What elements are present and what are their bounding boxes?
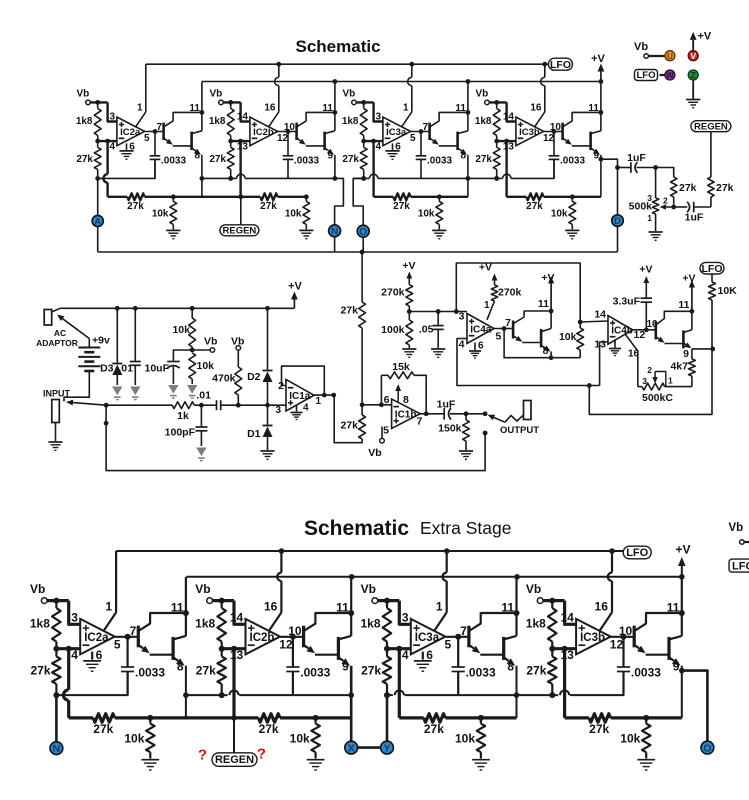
svg-text:IC3a: IC3a (386, 127, 407, 138)
svg-text:IC1a: IC1a (289, 391, 311, 402)
svg-text:7: 7 (505, 317, 511, 329)
op-amp IC2b bot stage 2 (IC2b) (246, 619, 281, 655)
svg-text:IC3a: IC3a (415, 632, 440, 644)
resistor 15k feedback (380, 375, 382, 405)
wire output bot stage 2 (IC2b) (280, 636, 304, 638)
op-amp IC1a (286, 380, 314, 412)
svg-text:5: 5 (445, 638, 452, 652)
svg-text:2: 2 (663, 196, 668, 206)
junction pin4 top stage 1 (IC2a) (95, 139, 100, 144)
transistor Q6 bot stage 3 (IC3a) (502, 637, 505, 660)
power +V arrow (Q12) (691, 288, 693, 312)
ground 10k bot stage 4 (IC3b) (637, 759, 655, 761)
svg-text:.0033: .0033 (294, 155, 319, 166)
junction Vb divider top stage 2 (IC2b) (228, 100, 233, 105)
resistor 10k bot stage 2 (IC2b) (311, 724, 320, 753)
capacitor .0033 bot stage 4 (IC3b) (622, 637, 624, 667)
wire output bot stage 3 (IC3a) (445, 636, 469, 638)
wire +V rail (bottom) (186, 576, 681, 578)
junction feedback vert bot stage 2 (IC2b) (231, 646, 237, 652)
svg-text:10k: 10k (559, 331, 577, 343)
resistor 27k bias top stage 1 (IC2a) (94, 147, 101, 169)
svg-text:3: 3 (459, 311, 465, 323)
svg-text:AC: AC (54, 328, 66, 338)
svg-text:27k: 27k (475, 154, 492, 165)
svg-text:11: 11 (455, 103, 466, 114)
wire collector to +V rail bot stage 3 (IC3a) (515, 577, 517, 636)
connector INPUT jack (52, 400, 60, 423)
wire pin3 corner top stage 3 (IC3a) (374, 102, 383, 121)
ground 10k bot stage 1 (IC2a) (142, 759, 160, 761)
resistor 10k bot stage 4 (IC3b) (642, 724, 651, 753)
wire pin 16 to LFO rail bot stage 4 (IC3b) (600, 612, 612, 630)
junction Vb divider bot stage 2 (IC2b) (219, 598, 225, 604)
svg-text:A: A (94, 216, 101, 227)
resistor 1k8 bot stage 4 (IC3b) (548, 608, 557, 642)
svg-text:3: 3 (375, 111, 381, 122)
capacitor 1uF output (443, 408, 445, 420)
svg-text:12: 12 (279, 638, 293, 652)
junction +V rail (333, 79, 338, 84)
junction bypass tap (104, 421, 109, 426)
svg-text:4: 4 (71, 648, 78, 662)
junction REGEN tap (top) (238, 194, 243, 199)
terminal Vb bot stage 1 (IC2a) (41, 598, 47, 604)
capacitor .0033 bot stage 2 (IC2b) (292, 637, 294, 667)
wire feedback vertical bot stage 1 (IC2a) (67, 649, 70, 690)
svg-text:Vb: Vb (210, 88, 223, 99)
junction lfo bottom tap (587, 383, 592, 388)
wire pin3 corner top stage 1 (IC2a) (108, 102, 117, 121)
junction pin13 bot stage 4 (IC3b) (549, 646, 555, 652)
junction collector bot stage 3 (IC3a) (514, 610, 520, 616)
wire output bot stage 1 (IC2a) (115, 636, 139, 638)
wire collector to +V rail top stage 2 (IC2b) (334, 82, 336, 131)
ground IC1a (296, 405, 298, 412)
connector AC adaptor (44, 310, 52, 326)
wire pin13 line bot stage 2 (IC2b) (222, 647, 246, 650)
junction IC4b output (644, 327, 649, 332)
svg-text:11: 11 (538, 298, 549, 310)
svg-text:27k: 27k (716, 182, 734, 194)
svg-text:5: 5 (144, 133, 150, 144)
ground 10k top stage 1 (IC2a) (166, 229, 180, 231)
svg-text:?: ? (198, 747, 207, 764)
wire output bot stage 4 (IC3b) (611, 636, 635, 638)
svg-text:7: 7 (460, 624, 467, 638)
svg-text:REGEN: REGEN (694, 121, 728, 132)
junction bias bottom bot stage 4 (IC3b) (549, 692, 555, 698)
ground 100k (402, 348, 416, 350)
svg-text:16: 16 (530, 102, 542, 113)
svg-text:O: O (359, 227, 367, 238)
svg-text:100k: 100k (381, 324, 405, 336)
svg-text:IC2b: IC2b (250, 632, 275, 644)
wire pin13 line bot stage 4 (IC3b) (552, 647, 576, 650)
svg-text:D: D (614, 216, 621, 227)
op-amp IC4a (467, 314, 494, 344)
junction REGEN tap (bottom) (231, 715, 237, 721)
wire feedback vertical top stage 1 (IC2a) (106, 141, 108, 174)
wire supply rail (60, 307, 294, 309)
svg-text:15k: 15k (392, 361, 410, 373)
wire phase bus segment A (top) (98, 159, 155, 178)
wire phase bus segment D (top) (468, 177, 503, 179)
svg-text:27k: 27k (93, 722, 113, 736)
junction feedback vert bot stage 1 (IC2a) (66, 646, 72, 652)
junction wiper node (671, 205, 676, 210)
svg-text:D1: D1 (247, 428, 261, 440)
wire feedback vertical bot stage 3 (IC3a) (398, 649, 401, 718)
junction supply rail (190, 306, 195, 311)
wire input tip switch (73, 403, 106, 406)
svg-text:Vb: Vb (526, 582, 541, 596)
junction Vb divider bot stage 4 (IC3b) (549, 598, 555, 604)
wire phase bus segment B (bottom) (186, 694, 228, 696)
svg-text:1: 1 (668, 376, 673, 386)
wire pin 1 to LFO rail bot stage 1 (IC2a) (104, 612, 116, 630)
transistor Q11 (654, 322, 657, 340)
junction bus stage2 bias (228, 176, 233, 181)
junction LFO 10K tap (710, 347, 715, 352)
svg-text:.0033: .0033 (631, 665, 661, 679)
junction Vb divider top stage 1 (IC2a) (95, 100, 100, 105)
power +V arrow (270k left) (408, 279, 410, 285)
svg-text:11: 11 (171, 600, 184, 614)
junction 10k top stage 3 (IC3a) (437, 194, 442, 199)
wire REGEN drop (bottom) (233, 718, 235, 753)
wire Vb legend (649, 55, 666, 57)
op-amp IC3a bot stage 3 (IC3a) (411, 619, 446, 655)
wire T1 emitter top stage 1 (IC2a) (164, 138, 167, 141)
ground 500k (649, 231, 663, 233)
ground D1 (260, 450, 274, 452)
wire REGEN drop (top) (240, 197, 242, 225)
junction bias bottom top stage 2 (IC2b) (228, 176, 233, 181)
wire stage3 emitter drop (467, 155, 469, 197)
svg-text:9: 9 (683, 348, 689, 360)
svg-text:14: 14 (503, 111, 515, 122)
wire b3 emitter drop (516, 666, 518, 718)
svg-text:11: 11 (336, 600, 349, 614)
wire node N feed (335, 178, 344, 225)
svg-text:27k: 27k (424, 722, 444, 736)
wire T1 emitter bot stage 4 (IC3b) (635, 645, 639, 648)
resistor 270k right (494, 281, 496, 286)
wire collector to +V rail bot stage 1 (IC2a) (185, 577, 187, 636)
junction pin4 top stage 3 (IC3a) (361, 139, 366, 144)
capacitor .0033 bot stage 1 (IC2a) (126, 637, 128, 667)
resistor 27k bias top stage 3 (IC3a) (360, 147, 367, 169)
svg-text:Vb: Vb (77, 88, 90, 99)
svg-text:+V: +V (541, 272, 554, 284)
svg-text:1k8: 1k8 (475, 116, 492, 127)
transistor Q5 bot stage 3 (IC3a) (467, 626, 470, 648)
junction LFO rail (276, 62, 281, 67)
junction pin4 bot stage 3 (IC3a) (384, 646, 390, 652)
wire IC1a output (314, 394, 334, 396)
svg-text:Vb: Vb (343, 88, 356, 99)
svg-text:12: 12 (543, 133, 555, 144)
ground .01 supply (130, 387, 140, 396)
wire T1 emitter top stage 3 (IC3a) (430, 138, 433, 141)
wire T2 emitter top stage 3 (IC3a) (458, 148, 462, 151)
svg-text:.0033: .0033 (560, 155, 585, 166)
svg-text:LFO: LFO (637, 70, 656, 81)
junction 500k top (653, 165, 658, 170)
wire output switch arm (494, 418, 505, 423)
wire collector to +V rail top stage 4 (IC3b) (600, 82, 602, 131)
junction LFO rail bottom (609, 548, 615, 554)
wire stage bottom bot stage 3 (IC3a) (399, 716, 423, 719)
svg-text:10: 10 (619, 624, 633, 638)
wire to IC1a (238, 404, 286, 406)
ground legend (692, 80, 694, 99)
svg-text:IC3b: IC3b (519, 127, 540, 138)
svg-text:27k: 27k (342, 154, 359, 165)
label LFO (bottom legend) (729, 559, 749, 572)
wire T2 emitter top stage 4 (IC3b) (591, 148, 595, 151)
wire Vb feed bot stage 3 (IC3a) (378, 599, 400, 602)
svg-text:10k: 10k (197, 360, 215, 372)
ground top stage 3 (IC3a) (392, 143, 394, 150)
svg-text:27k: 27k (526, 664, 546, 678)
wire IC4b pin16 drop (626, 335, 638, 387)
resistor 27k mixer upper (361, 252, 363, 302)
wire T2 emitter top stage 1 (IC2a) (192, 148, 196, 151)
svg-text:1: 1 (647, 213, 652, 223)
junction bus stage1 emitter (200, 176, 205, 181)
junction output top stage 3 (IC3a) (419, 129, 424, 134)
svg-text:LFO: LFO (626, 547, 648, 559)
svg-text:11: 11 (588, 103, 599, 114)
wire node O feed (353, 178, 364, 225)
svg-text:10K: 10K (718, 285, 738, 297)
svg-text:LFO: LFO (702, 263, 723, 275)
label REGEN (top right) (691, 121, 731, 132)
svg-text:1uF: 1uF (685, 212, 704, 224)
svg-text:D2: D2 (247, 371, 261, 383)
junction bus b3 bias (384, 692, 390, 698)
junction Vb divider mid (190, 348, 195, 353)
junction IC1b feedback out (424, 411, 429, 416)
svg-text:10k: 10k (620, 731, 640, 745)
wire T1 emitter bot stage 2 (IC2b) (304, 645, 308, 648)
wire pin13 line top stage 2 (IC2b) (231, 140, 250, 142)
svg-text:12: 12 (277, 133, 289, 144)
wire 1k to .01 (194, 404, 216, 406)
svg-text:11: 11 (667, 600, 680, 614)
svg-text:1uF: 1uF (437, 399, 456, 411)
svg-text:270k: 270k (498, 287, 522, 299)
svg-text:270k: 270k (381, 287, 405, 299)
power +V arrow (3.3uF) (645, 283, 647, 298)
wire stage2 emitter drop (334, 155, 336, 179)
transistor Q4 top stage 2 (IC2b) (323, 132, 326, 151)
junction 270k 100k (407, 309, 412, 314)
svg-text:8: 8 (177, 660, 184, 674)
svg-text:V: V (690, 51, 696, 61)
svg-text:LFO: LFO (732, 560, 749, 572)
svg-text:N: N (53, 743, 61, 755)
wire T1 emitter top stage 4 (IC3b) (563, 138, 566, 141)
junction stage4 emitter out (599, 157, 604, 162)
wire collector to +V rail top stage 1 (IC2a) (201, 82, 203, 131)
svg-text:13: 13 (503, 141, 515, 152)
wire stage1 emitter drop (201, 155, 203, 197)
wire IC4a emitter rail (504, 329, 580, 358)
svg-text:8: 8 (460, 151, 466, 162)
svg-text:1k8: 1k8 (360, 617, 380, 631)
junction bias bottom bot stage 1 (IC2a) (53, 692, 59, 698)
junction IC1b pin6 b (379, 402, 384, 407)
junction 10k bot stage 1 (IC2a) (147, 715, 153, 721)
svg-text:IC3b: IC3b (580, 632, 605, 644)
junction IC4a box left (454, 309, 459, 314)
junction bias bottom bot stage 2 (IC2b) (219, 692, 225, 698)
svg-text:.05: .05 (419, 324, 434, 336)
wire node O feed (bottom) (682, 671, 708, 742)
svg-text:16: 16 (595, 600, 609, 614)
junction 10k bot stage 2 (IC2b) (313, 715, 319, 721)
svg-text:.01: .01 (196, 390, 211, 402)
wire IC1a feedback (282, 366, 325, 395)
wiper 500kC (654, 372, 656, 378)
wire Q12 collector (691, 311, 693, 330)
svg-text:7: 7 (130, 624, 137, 638)
svg-text:?: ? (257, 746, 266, 763)
op-amp IC3b top stage 4 (IC3b) (516, 117, 544, 146)
svg-text:3: 3 (275, 405, 281, 416)
wire feedback vertical top stage 4 (IC3b) (505, 141, 507, 197)
resistor 27k bias bot stage 4 (IC3b) (548, 657, 557, 684)
svg-text:1: 1 (105, 600, 112, 614)
op-amp IC2a bot stage 1 (IC2a) (80, 619, 115, 655)
junction D2 D1 (265, 403, 270, 408)
junction 1k out (199, 403, 204, 408)
svg-text:8: 8 (543, 345, 549, 357)
wire IC1b output (420, 413, 444, 415)
svg-text:14: 14 (594, 309, 606, 321)
svg-text:.0033: .0033 (466, 665, 496, 679)
junction 470k in (236, 403, 241, 408)
junction +V rail bottom (514, 574, 520, 580)
transistor Q7 bot stage 4 (IC3b) (633, 626, 636, 648)
junction IC4b pin14 node (578, 320, 583, 325)
resistor 27k bias bot stage 2 (IC2b) (217, 657, 226, 684)
wire AC switch arm (63, 319, 90, 339)
wire input bypass tap (106, 405, 485, 470)
wire Q11 emitter (656, 337, 659, 339)
resistor 10K lfo out (711, 274, 713, 282)
ground top stage 1 (IC2a) (126, 143, 128, 150)
wire node A drop (97, 178, 99, 215)
potentiometer 500k (655, 168, 657, 199)
wire input signal (106, 404, 172, 406)
junction output switch a (483, 411, 488, 416)
junction Q12 collector top (690, 309, 695, 314)
ground .05 (431, 348, 445, 350)
capacitor .0033 bot stage 3 (IC3a) (457, 637, 459, 667)
svg-text:REGEN: REGEN (215, 754, 254, 766)
wire select bus (98, 251, 618, 253)
resistor 1k8 top stage 2 (IC2b) (227, 108, 234, 135)
transistor Q6 top stage 3 (IC3a) (456, 132, 459, 151)
legend red circle V (688, 51, 698, 61)
power +V arrow (top section) (600, 72, 602, 82)
resistor 1k (172, 402, 194, 409)
svg-text:U: U (667, 51, 673, 61)
svg-text:16: 16 (264, 102, 276, 113)
junction IC4a output (502, 326, 507, 331)
transistor Q7 top stage 4 (IC3b) (561, 123, 564, 140)
node Y (381, 741, 394, 754)
wire b1 emitter drop (185, 666, 187, 718)
svg-text:IC2b: IC2b (253, 127, 274, 138)
wire T2 emitter top stage 2 (IC2b) (325, 148, 329, 151)
svg-text:1: 1 (484, 300, 490, 311)
junction pin13 bot stage 2 (IC2b) (219, 646, 225, 652)
junction feedback vert top stage 1 (IC2a) (105, 139, 110, 144)
label REGEN (bottom) (212, 753, 257, 767)
op-amp IC2b top stage 2 (IC2b) (250, 117, 278, 146)
wire IC4a output (494, 328, 513, 330)
wire T1 emitter top stage 2 (IC2b) (297, 138, 300, 141)
svg-text:10: 10 (550, 122, 562, 133)
svg-text:Vb: Vb (476, 88, 489, 99)
junction bus b4 bias (550, 692, 556, 698)
svg-text:IC1b: IC1b (395, 410, 417, 421)
power +V arrow (bottom) (681, 566, 683, 577)
svg-text:5: 5 (496, 331, 502, 343)
svg-text:O: O (703, 742, 711, 754)
junction supply rail (115, 306, 120, 311)
svg-text:.0033: .0033 (427, 155, 452, 166)
capacitor 100pF (200, 405, 202, 427)
junction IC1a output (331, 393, 336, 398)
wire pin3 corner bot stage 2 (IC2b) (234, 601, 246, 625)
wire node N drop (bottom) (55, 695, 58, 742)
junction bus b2 bias (219, 692, 225, 698)
svg-text:3: 3 (402, 611, 409, 625)
connector OUTPUT jack (524, 401, 532, 420)
resistor 1k8 bot stage 3 (IC3a) (383, 608, 392, 642)
wire b2 emitter drop (to X) (350, 666, 353, 742)
svg-text:10k: 10k (152, 208, 169, 219)
op-amp IC4b (608, 316, 633, 345)
resistor 27k bias top stage 2 (IC2b) (227, 147, 234, 169)
diode D2 (267, 308, 269, 369)
wire feedback vertical bot stage 2 (IC2b) (232, 649, 235, 718)
wire pin 1 to LFO rail bot stage 3 (IC3a) (434, 612, 446, 630)
label LFO (oval near IC4b) (700, 262, 724, 274)
svg-text:4: 4 (402, 648, 409, 662)
junction 10k bot stage 3 (IC3a) (478, 715, 484, 721)
junction Vb divider top stage 3 (IC3a) (361, 100, 366, 105)
wire feedback vertical top stage 2 (IC2b) (239, 141, 241, 197)
junction collector top stage 1 (IC2a) (200, 110, 205, 115)
junction collector top stage 3 (IC3a) (466, 110, 471, 115)
capacitor .0033 top stage 3 (IC3a) (420, 132, 422, 156)
svg-text:Vb: Vb (361, 582, 376, 596)
wire T1 emitter bot stage 3 (IC3a) (470, 645, 474, 648)
resistor 27k (regen) (710, 197, 712, 207)
wire pin4 line bot stage 3 (IC3a) (387, 647, 411, 650)
capacitor 1uF (regen) (674, 206, 688, 208)
capacitor .05 (437, 312, 439, 326)
wire LFO rail (top) (146, 63, 549, 65)
label REGEN (top) (220, 225, 259, 236)
